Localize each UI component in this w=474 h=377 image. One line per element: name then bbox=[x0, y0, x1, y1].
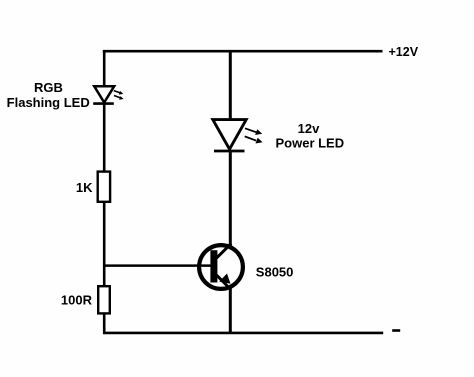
LED D1 cathode bar bbox=[93, 102, 114, 105]
wire left vertical from rail to RGB LED anode bbox=[103, 50, 106, 88]
label minus terminal bbox=[392, 329, 400, 332]
svg-text:Power LED: Power LED bbox=[275, 136, 344, 151]
resistor R1 1K bbox=[98, 172, 110, 202]
LED D1 RGB flashing LED triangle bbox=[94, 86, 114, 102]
resistor R2 100R bbox=[98, 286, 110, 313]
svg-text:S8050: S8050 bbox=[256, 264, 294, 279]
wire R1 bottom to node A bbox=[103, 203, 106, 287]
transistor Q1 collector stroke bbox=[217, 244, 232, 258]
wire right vertical from rail to power LED anode bbox=[229, 50, 232, 121]
LED D2 emission arrow 1 bbox=[245, 128, 262, 135]
wire R2 bottom to ground rail bbox=[103, 313, 106, 333]
svg-text:RGB: RGB bbox=[34, 80, 63, 95]
svg-text:+12V: +12V bbox=[389, 45, 419, 59]
wire base: node A to transistor base bbox=[103, 264, 212, 267]
svg-text:1K: 1K bbox=[76, 180, 93, 195]
transistor Q1 emitter arrowhead bbox=[219, 274, 230, 284]
transistor Q1 S8050 circle bbox=[199, 245, 243, 289]
wire bottom rail bbox=[103, 332, 383, 335]
svg-text:Flashing LED: Flashing LED bbox=[7, 95, 90, 110]
wire top rail +12V bbox=[103, 50, 383, 53]
svg-text:12v: 12v bbox=[298, 121, 320, 136]
transistor Q1 emitter stroke bbox=[217, 275, 231, 289]
LED D1 emission arrow 2 bbox=[114, 96, 124, 100]
transistor Q1 base bar bbox=[210, 250, 217, 282]
wire emitter to ground rail bbox=[229, 288, 232, 334]
LED D1 emission arrow 1 bbox=[114, 91, 124, 95]
svg-text:100R: 100R bbox=[61, 292, 93, 307]
LED D2 cathode bar bbox=[214, 150, 245, 153]
wire RGB LED cathode to R1 bbox=[103, 104, 106, 172]
wire power LED cathode to transistor collector bbox=[229, 151, 232, 246]
LED D2 12v power LED triangle bbox=[213, 120, 246, 150]
LED D2 emission arrow 2 bbox=[245, 136, 263, 143]
